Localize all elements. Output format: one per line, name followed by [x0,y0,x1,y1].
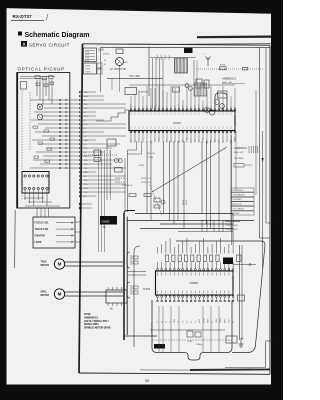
svg-text:C 0.01: C 0.01 [147,157,154,159]
svg-text:SYN 8801: SYN 8801 [234,158,244,160]
svg-text:LPF: LPF [207,139,209,142]
svg-text:CN602: CN602 [102,220,111,224]
svg-text:SYS: SYS [85,60,90,62]
svg-text:R725: R725 [139,165,145,167]
svg-text:MOTOR: MOTOR [41,265,50,267]
svg-text:TRACK COIL: TRACK COIL [35,228,50,231]
svg-text:SPINDLE MOTOR DRIVE: SPINDLE MOTOR DRIVE [84,328,111,330]
svg-text:SRCH: SRCH [187,137,189,143]
svg-text:TRAV.: TRAV. [41,260,48,263]
svg-text:AC PICKUP HF: AC PICKUP HF [110,68,127,71]
svg-text:DEFE: DEFE [199,319,201,323]
svg-text:R726 4.7k: R726 4.7k [141,182,152,184]
svg-text:SPDL.: SPDL. [41,291,48,293]
svg-text:SYN BL: SYN BL [233,213,241,215]
svg-text:MUTE: MUTE [183,199,185,205]
svg-text:CHG MAJOR: CHG MAJOR [226,224,239,227]
svg-text:FOC O: FOC O [229,317,231,323]
svg-text:Q708: Q708 [98,50,104,52]
svg-text:L CAHGNL: L CAHGNL [138,91,149,94]
svg-text:VCXO: VCXO [161,54,163,60]
svg-text:MTR STD: MTR STD [233,204,242,206]
svg-text:TR 4.7k: TR 4.7k [147,153,156,155]
svg-text:RX-DT37: RX-DT37 [13,14,33,19]
svg-text:LPF: LPF [187,105,189,108]
svg-text:8806 - HP: 8806 - HP [234,152,244,154]
svg-text:VCXO: VCXO [165,54,167,60]
svg-text:PW LATCH: PW LATCH [233,189,244,192]
svg-text:SRCH: SRCH [131,103,133,109]
svg-text:CHG MAJOR: CHG MAJOR [233,194,246,197]
svg-text:C745: C745 [187,341,193,343]
svg-text:SRCH: SRCH [179,103,181,109]
svg-text:A/N FE / SIGNAL PRC /: A/N FE / SIGNAL PRC / [84,320,109,323]
svg-text:TFOC: TFOC [199,103,201,108]
svg-text:8P: 8P [103,227,106,229]
svg-text:LPF: LPF [167,139,169,142]
svg-text:M: M [58,262,62,267]
svg-text:AN8806SC1: AN8806SC1 [234,147,248,150]
svg-text:CTL CHECK: CTL CHECK [233,208,245,210]
svg-text:SYS: SYS [85,57,90,59]
svg-text:VCXO: VCXO [157,54,159,60]
svg-text:LPF: LPF [155,139,157,142]
svg-text:RF: RF [227,106,229,108]
svg-text:A: A [22,42,25,47]
svg-text:FE: FE [233,321,235,323]
svg-text:IC701: IC701 [173,121,181,125]
svg-text:TFOC: TFOC [159,137,161,142]
svg-text:FOCUS COIL: FOCUS COIL [35,223,50,225]
svg-text:SERVO AMP /: SERVO AMP / [84,323,99,326]
svg-text:CN70: CN70 [85,72,91,74]
svg-text:R726 4.7k: R726 4.7k [115,182,126,184]
svg-text:F.MOTOR: F.MOTOR [35,236,46,238]
svg-text:SL+: SL+ [182,320,184,323]
svg-text:TRKG E: TRKG E [220,317,222,323]
svg-text:SRCH: SRCH [203,137,205,143]
svg-text:SL+: SL+ [187,320,189,323]
svg-text:PTL LINE: PTL LINE [130,75,141,78]
svg-text:R726 4.7k: R726 4.7k [115,178,126,180]
svg-text:DEF: DEF [207,105,209,108]
svg-text:VCXO: VCXO [169,54,171,60]
svg-text:SP1 BLAST: SP1 BLAST [151,323,154,334]
svg-text:DEF: DEF [131,139,133,142]
svg-text:DEF: DEF [211,139,213,142]
svg-text:MOTOR: MOTOR [41,295,50,297]
svg-text:8806 - HP: 8806 - HP [222,82,232,84]
svg-text:L/R SHIFT: L/R SHIFT [233,199,243,201]
svg-text:AN8805SC1: AN8805SC1 [222,77,237,81]
svg-text:OPTICAL PICKUP: OPTICAL PICKUP [18,67,65,72]
svg-text:SRCH: SRCH [235,137,237,143]
svg-text:SERVO CIRCUIT: SERVO CIRCUIT [29,42,70,47]
svg-text:M: M [58,292,62,297]
svg-text:SYS: SYS [85,54,90,56]
svg-text:LD/PD: LD/PD [35,242,42,244]
svg-text:SYS: SYS [85,51,90,53]
svg-text:R,C: R,C [228,340,232,342]
svg-text:20: 20 [145,379,149,383]
svg-text:IC702: IC702 [143,287,151,291]
svg-text:CN70: CN70 [85,69,91,71]
svg-text:AN8806SC1: AN8806SC1 [84,316,99,319]
svg-text:R726 4.7k: R726 4.7k [141,178,152,180]
svg-text:MUTE: MUTE [186,199,188,205]
svg-text:QT701: QT701 [103,54,110,56]
svg-text:CN70: CN70 [85,66,91,68]
svg-text:R716: R716 [220,65,226,67]
svg-text:Schematic Diagram: Schematic Diagram [25,32,90,39]
svg-text:R726 4.7k: R726 4.7k [122,185,133,187]
svg-text:DEF: DEF [143,139,145,142]
svg-text:AN8806: AN8806 [190,282,199,285]
svg-text:1000p: 1000p [196,344,203,346]
svg-text:SL+: SL+ [195,320,197,323]
